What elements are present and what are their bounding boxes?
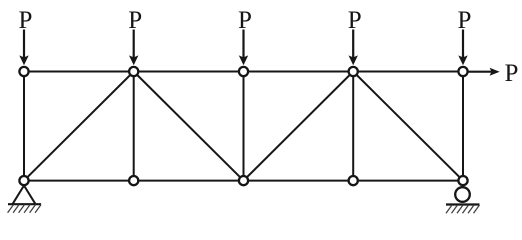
load arrow P4 at node T4 <box>349 30 358 66</box>
support roller at B5 <box>455 187 470 202</box>
ground line left <box>8 203 41 205</box>
wire vertical T4-B4 <box>352 72 354 181</box>
svg-text:P: P <box>348 7 362 34</box>
wire bottom chord B1-B5 <box>24 180 463 182</box>
load arrow P2 at node T2 <box>129 30 138 66</box>
wire diagonal T2-B3 <box>134 72 244 181</box>
wire vertical T1-B1 <box>23 72 25 181</box>
node B3 <box>239 176 248 185</box>
wire vertical T3-B3 <box>243 72 245 181</box>
node B4 <box>349 176 358 185</box>
load arrow P5 at node T5 <box>458 30 467 66</box>
load arrow P1 at node T1 <box>19 30 28 66</box>
wire diagonal T4-B5 <box>353 72 463 181</box>
load arrow P horizontal at node T5 <box>468 68 500 76</box>
wire diagonal B1-T2 <box>24 72 134 181</box>
node T5 <box>458 67 467 76</box>
svg-text:P: P <box>128 7 142 34</box>
wire top chord T1-T5 <box>24 71 463 73</box>
svg-text:P: P <box>19 7 33 34</box>
node T1 <box>19 67 28 76</box>
svg-text:P: P <box>458 7 472 34</box>
load arrow P3 at node T3 <box>239 30 248 66</box>
wire vertical T5-B5 <box>462 72 464 181</box>
wire vertical T2-B2 <box>133 72 135 181</box>
svg-text:P: P <box>238 7 252 34</box>
wire diagonal B3-T4 <box>244 72 354 181</box>
node B1 <box>19 176 28 185</box>
ground hatching left <box>8 205 42 213</box>
node T4 <box>349 67 358 76</box>
node B2 <box>129 176 138 185</box>
svg-text:P: P <box>505 60 519 87</box>
ground line right <box>446 203 480 205</box>
ground hatching right <box>446 205 480 213</box>
node T2 <box>129 67 138 76</box>
support pin at B1 <box>13 186 36 204</box>
node B5 <box>458 176 467 185</box>
node T3 <box>239 67 248 76</box>
